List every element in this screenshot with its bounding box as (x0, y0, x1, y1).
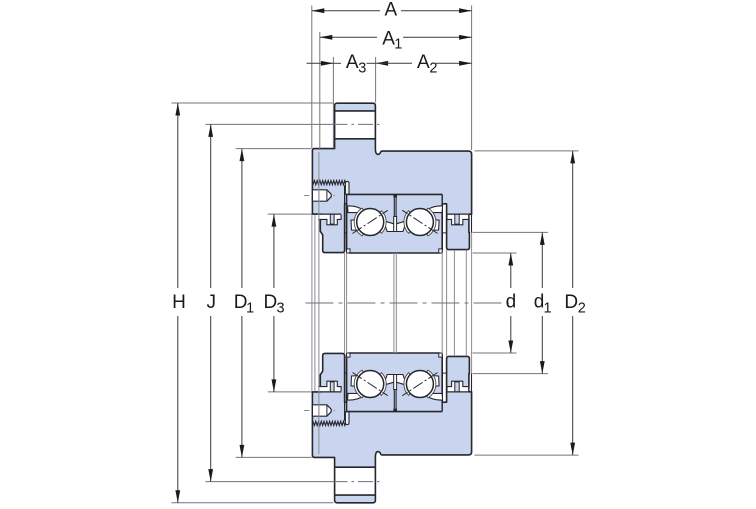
housing FBSA flanged unit (blue cross-section, top half) (312, 103, 471, 253)
raceway washers around right ball (427, 206, 443, 213)
contact angle lines (353, 210, 388, 233)
right labyrinth slot (447, 215, 469, 225)
bore silhouette edges (right) (441, 253, 443, 353)
raceway washers around left ball (348, 206, 364, 213)
bore silhouette edges (left) (311, 215, 313, 392)
left labyrinth slot (318, 381, 341, 391)
svg-text:2: 2 (429, 60, 437, 76)
dimension D3 (273, 214, 275, 288)
raceway washers around right ball (427, 393, 443, 400)
raceway gap crescents (380, 373, 386, 396)
dimension A3 (307, 62, 334, 64)
bolt hole through flange lug (336, 112, 375, 138)
dimension H (177, 103, 179, 288)
bore silhouette edges (washer faces) (344, 253, 346, 353)
svg-text:A: A (346, 52, 359, 73)
svg-text:A: A (384, 0, 397, 20)
bolt hole axis (bottom) / J extension (206, 481, 348, 483)
ball (left, top row) (357, 371, 384, 398)
dimension A2 (376, 61, 389, 66)
raceway washers around left ball (348, 393, 364, 400)
thread (zigzag) (313, 181, 346, 185)
extension lines left dims (172, 102, 334, 104)
svg-text:H: H (172, 292, 186, 313)
svg-text:2: 2 (578, 300, 586, 316)
dimension A (312, 10, 380, 12)
raceway gap crescents (404, 211, 410, 234)
center joint of washers (393, 390, 395, 412)
washer lip (345, 412, 349, 425)
svg-text:D: D (264, 292, 278, 313)
dimension A1 (320, 36, 377, 38)
shaft centerline (306, 302, 510, 304)
svg-text:A: A (417, 52, 430, 73)
svg-text:3: 3 (358, 60, 366, 76)
right labyrinth slot (447, 381, 469, 391)
grease screw M1 (304, 410, 336, 412)
shaft washer corner chamfers (347, 353, 350, 357)
extension lines right dims (473, 252, 517, 254)
bolt hole through flange lug (336, 468, 375, 494)
cover/threaded ring joint (344, 185, 346, 204)
svg-text:D: D (564, 292, 578, 313)
shaft washer corner chamfers (347, 249, 350, 253)
housing FBSA flanged unit (blue cross-section, top half) (312, 353, 471, 503)
raceway gap crescents (404, 373, 410, 396)
cover/threaded ring joint (344, 402, 346, 421)
grease screw M1 (304, 195, 336, 197)
dimension D2 (572, 151, 574, 288)
bearing washer block (347, 411, 443, 413)
dimension D1 (241, 149, 243, 288)
svg-text:d: d (506, 292, 517, 313)
extension lines top dims (311, 6, 313, 149)
thread (zigzag) (313, 421, 346, 425)
gap ticks at bearing faces (345, 232, 347, 234)
dimension d (510, 253, 512, 288)
svg-text:1: 1 (394, 37, 402, 53)
svg-text:3: 3 (277, 300, 285, 316)
washer lip (345, 181, 349, 194)
ball (right, top row) (406, 371, 433, 398)
raceway gap crescents (380, 211, 386, 234)
ball (right, top row) (406, 209, 433, 236)
bolt hole axis (top) / J extension (206, 123, 348, 125)
contact angle lines (353, 373, 388, 396)
dimension d1 (541, 232, 543, 288)
left labyrinth slot (318, 215, 341, 225)
svg-text:1: 1 (246, 300, 254, 316)
svg-text:J: J (206, 292, 216, 313)
svg-text:1: 1 (544, 300, 552, 316)
ball (left, top row) (357, 209, 384, 236)
gap ticks at bearing faces (345, 372, 347, 374)
bearing washer block (347, 193, 443, 195)
center joint of washers (393, 194, 395, 216)
dimension J (210, 124, 212, 288)
